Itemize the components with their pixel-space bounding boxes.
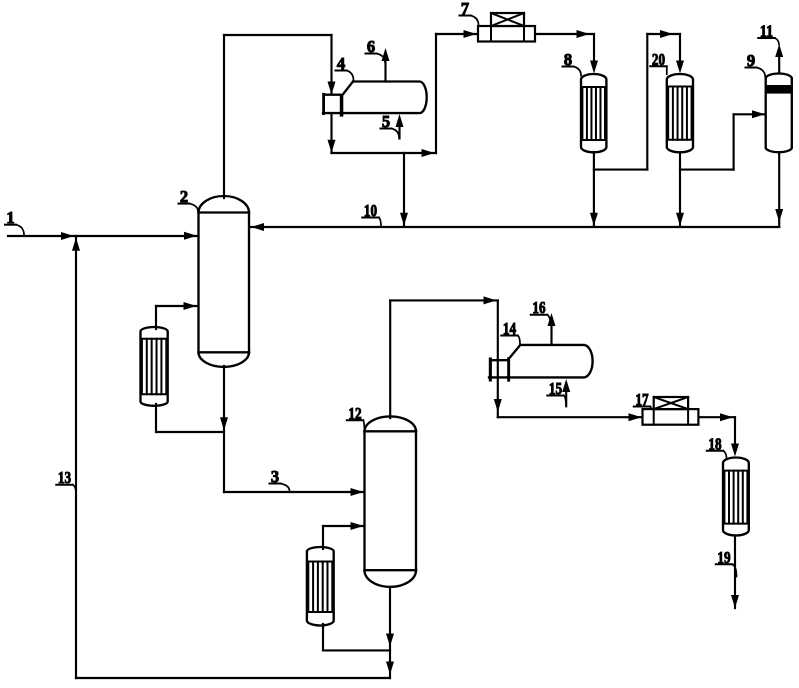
svg-text:11: 11 [760, 22, 773, 41]
svg-text:6: 6 [367, 37, 375, 56]
svg-text:20: 20 [652, 50, 665, 69]
svg-text:16: 16 [532, 298, 545, 317]
svg-text:4: 4 [337, 54, 345, 73]
svg-text:3: 3 [271, 467, 279, 486]
svg-text:15: 15 [549, 379, 562, 398]
svg-text:10: 10 [364, 201, 377, 220]
svg-text:17: 17 [635, 390, 648, 409]
svg-text:2: 2 [180, 187, 188, 206]
svg-text:19: 19 [717, 548, 730, 567]
svg-text:12: 12 [348, 404, 361, 423]
svg-text:18: 18 [708, 434, 721, 453]
svg-text:14: 14 [503, 319, 516, 338]
svg-text:7: 7 [461, 0, 469, 18]
svg-text:1: 1 [6, 208, 14, 227]
svg-text:13: 13 [58, 468, 71, 487]
svg-text:9: 9 [747, 51, 755, 70]
svg-text:8: 8 [564, 50, 572, 69]
svg-text:5: 5 [382, 112, 390, 131]
